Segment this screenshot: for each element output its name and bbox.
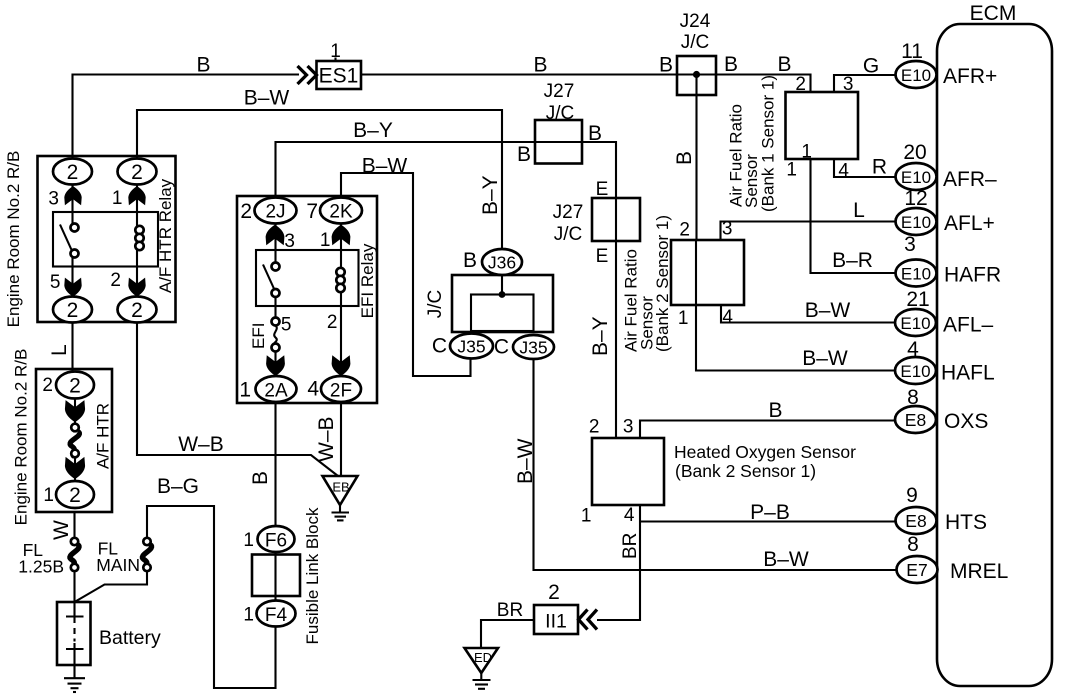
svg-text:1.25B: 1.25B [18, 557, 64, 577]
fusible link block box [252, 555, 300, 597]
svg-text:B: B [463, 249, 477, 272]
heater element [70, 399, 79, 482]
wire B-W: AFR bank2 pin1 to HAFL [695, 240, 697, 305]
svg-text:1: 1 [243, 605, 254, 626]
connector F6 pin 1 [243, 526, 294, 552]
arrow down heater bottom [65, 457, 85, 479]
svg-text:B–Y: B–Y [479, 175, 502, 215]
svg-text:(Bank 2 Sensor 1): (Bank 2 Sensor 1) [653, 215, 672, 352]
svg-text:2: 2 [131, 161, 143, 184]
svg-text:E8: E8 [905, 410, 926, 430]
arrow down pin2 [128, 278, 145, 297]
svg-text:B–W: B–W [362, 155, 408, 178]
fuse EFI [249, 318, 280, 352]
svg-text:AFR–: AFR– [943, 168, 997, 191]
svg-text:BR: BR [620, 533, 641, 559]
fuse FL 1.25B [18, 538, 79, 577]
switch contacts A/F HTR relay [60, 224, 79, 258]
svg-text:HAFL: HAFL [941, 362, 995, 385]
wire W-B: A/F HTR relay pin2 to EB ground [137, 322, 338, 476]
svg-text:B: B [533, 54, 547, 77]
svg-text:MAIN: MAIN [96, 555, 140, 575]
svg-text:R: R [872, 156, 887, 179]
wire B-W: A/F HTR relay pin1 to J36 [137, 110, 502, 250]
connector 2 top-right A/F HTR relay [118, 159, 157, 185]
svg-text:2: 2 [240, 200, 252, 223]
coil A/F HTR relay [135, 226, 143, 250]
wire battery to ground [73, 649, 75, 678]
wire B main top: A/F HTR relay pin3 to ES1 [73, 75, 300, 159]
J27 J/C upper [517, 81, 602, 166]
svg-text:4: 4 [307, 378, 319, 401]
battery [57, 602, 161, 665]
svg-text:B: B [659, 54, 673, 77]
relay A/F HTR: Engine Room No.2 R/B box [4, 151, 176, 328]
svg-text:E10: E10 [901, 213, 931, 232]
svg-text:B: B [673, 151, 696, 165]
wire pin3 internal A/F HTR relay [71, 185, 73, 225]
ground EB [323, 476, 358, 520]
node J24 junction dot [693, 71, 700, 78]
wire J36 to junction bar [501, 275, 503, 295]
svg-text:B: B [777, 53, 791, 76]
svg-text:EFI: EFI [249, 323, 268, 349]
svg-text:J24: J24 [680, 11, 711, 32]
svg-text:2J: 2J [265, 202, 285, 223]
svg-text:J35: J35 [519, 338, 547, 358]
svg-text:3: 3 [904, 233, 916, 256]
arrow down 2F [332, 355, 351, 376]
svg-text:F6: F6 [265, 531, 287, 552]
svg-text:20: 20 [903, 141, 926, 164]
svg-text:1: 1 [112, 188, 123, 209]
svg-text:B–Y: B–Y [589, 316, 612, 356]
J27 J/C lower [553, 179, 640, 267]
svg-text:2: 2 [589, 417, 600, 438]
connector 2 bottom-left A/F HTR relay [53, 297, 92, 323]
svg-text:II1: II1 [545, 611, 567, 633]
node junction dot on bar [499, 291, 506, 298]
svg-text:B–R: B–R [832, 249, 873, 272]
svg-text:Battery: Battery [99, 627, 161, 649]
connector J35 right with label C [494, 335, 554, 359]
wire B-W: AFR bank2 pin4 to AFL- [721, 305, 896, 323]
arrow up pin1 [128, 186, 145, 205]
svg-text:3: 3 [48, 189, 59, 210]
svg-text:Fusible Link Block: Fusible Link Block [303, 507, 322, 645]
svg-text:B: B [588, 122, 602, 145]
svg-text:Engine Room No.2 R/B: Engine Room No.2 R/B [12, 349, 31, 526]
wire B-W: EFI relay 2K to J35 left [341, 173, 471, 376]
A/F HTR heater component box [12, 349, 113, 526]
svg-text:2: 2 [679, 220, 690, 241]
coil EFI relay [336, 268, 344, 292]
wire B: ES1 to J24 to sensor pin 2 [361, 75, 811, 94]
ground ED [465, 648, 499, 689]
connector J35 left with label C [432, 334, 493, 359]
svg-text:1: 1 [801, 142, 812, 163]
arrow up pin3 [64, 186, 81, 205]
arrow down pin5 [64, 278, 81, 297]
arrow down 2A [266, 355, 285, 376]
svg-text:B–G: B–G [157, 475, 199, 498]
svg-text:W: W [50, 520, 73, 540]
svg-text:C: C [494, 336, 509, 359]
svg-text:2: 2 [327, 312, 338, 333]
wire B-G: FL MAIN up over and down to F4 [147, 506, 276, 688]
svg-text:B: B [724, 53, 738, 76]
svg-text:MREL: MREL [950, 560, 1008, 583]
svg-text:E10: E10 [901, 168, 931, 187]
svg-text:1: 1 [320, 230, 331, 251]
svg-text:P–B: P–B [750, 501, 790, 524]
wire pin2 internal A/F HTR relay [136, 248, 138, 297]
svg-text:4: 4 [722, 307, 733, 328]
svg-text:5: 5 [50, 272, 61, 293]
svg-text:J36: J36 [488, 253, 516, 273]
connector J36 with label B [463, 249, 522, 275]
svg-text:HAFR: HAFR [944, 264, 1001, 287]
wire B vertical J24 to AFR sensor bank2 pin 2 [695, 75, 697, 241]
svg-text:2: 2 [548, 581, 560, 604]
svg-text:2: 2 [795, 74, 806, 95]
svg-text:2: 2 [110, 270, 121, 291]
switch contacts EFI relay [263, 263, 280, 298]
svg-text:W–B: W–B [315, 416, 338, 462]
connector 2 pin 2 A/F HTR [42, 372, 94, 399]
svg-text:E: E [596, 179, 609, 200]
wire pin3 internal EFI relay [274, 224, 276, 264]
svg-text:3: 3 [843, 74, 854, 95]
connector 2 bottom-right A/F HTR relay [118, 297, 157, 323]
svg-text:3: 3 [284, 231, 295, 252]
ECM connector ovals and labels [750, 40, 1008, 583]
II1 connector [534, 581, 597, 634]
svg-text:(Bank 1 Sensor 1): (Bank 1 Sensor 1) [759, 75, 778, 212]
svg-text:B: B [196, 54, 210, 77]
svg-text:AFR+: AFR+ [943, 65, 997, 88]
connector 2 top-left A/F HTR relay [53, 159, 92, 185]
svg-text:21: 21 [906, 288, 929, 311]
svg-text:B: B [768, 399, 782, 422]
wire P-B: HO2S pin4 to HTS and down to II1 [597, 505, 640, 620]
wire pin1 internal EFI relay [340, 224, 342, 270]
AFR sensor bank1 box [727, 74, 859, 212]
heated oxygen sensor box [581, 417, 856, 527]
svg-text:2: 2 [67, 161, 79, 184]
svg-text:G: G [863, 55, 879, 78]
connector 2J pin 2 EFI relay [240, 198, 296, 224]
svg-text:5: 5 [281, 315, 292, 336]
svg-text:J/C: J/C [681, 32, 710, 53]
svg-text:8: 8 [907, 533, 919, 556]
arrow up 2J [266, 225, 285, 246]
svg-text:9: 9 [906, 484, 918, 507]
svg-text:B–W: B–W [514, 438, 537, 484]
svg-text:2K: 2K [329, 202, 353, 223]
svg-text:12: 12 [904, 187, 927, 210]
svg-text:ECM: ECM [970, 2, 1017, 25]
svg-text:B–W: B–W [802, 347, 848, 370]
wire L: A/F HTR relay pin5 down [71, 322, 73, 372]
EFI relay box [237, 196, 377, 403]
svg-text:1: 1 [243, 530, 254, 551]
svg-text:2: 2 [131, 299, 143, 322]
junction connector J/C inner bus bar [471, 295, 534, 332]
connector 2A pin 1 EFI relay [239, 376, 296, 402]
J24 J/C [677, 11, 716, 95]
svg-text:4: 4 [838, 161, 849, 182]
svg-text:1: 1 [239, 379, 251, 402]
AFR sensor bank2 box [622, 215, 745, 352]
fuse FL MAIN [96, 538, 151, 575]
svg-text:3: 3 [722, 219, 733, 240]
svg-text:J/C: J/C [554, 224, 583, 245]
svg-text:J27: J27 [553, 202, 584, 223]
wire fuse to 2A internal EFI relay [274, 351, 276, 377]
wire pin1 internal A/F HTR relay [136, 185, 138, 228]
connector 2K pin 7 EFI relay [306, 198, 362, 224]
ground battery [64, 678, 85, 692]
svg-text:(Bank 2 Sensor 1): (Bank 2 Sensor 1) [675, 461, 816, 481]
svg-text:OXS: OXS [944, 410, 988, 433]
svg-text:1: 1 [43, 485, 54, 506]
svg-text:B–Y: B–Y [353, 119, 393, 142]
svg-text:E10: E10 [900, 314, 930, 333]
ES1 connector [298, 41, 362, 89]
svg-text:J27: J27 [544, 81, 575, 102]
EFI relay inner box [256, 250, 359, 306]
wire B: HO2S pin3 to OXS [640, 421, 896, 439]
svg-text:1: 1 [330, 41, 341, 62]
svg-text:B: B [517, 143, 531, 166]
svg-text:C: C [432, 335, 447, 358]
svg-text:2: 2 [69, 484, 81, 507]
svg-text:F4: F4 [265, 605, 288, 626]
svg-text:1: 1 [786, 160, 797, 181]
wire W-B: EFI relay 2F to EB ground [340, 402, 342, 476]
wire W: A/F HTR to battery [73, 512, 75, 538]
svg-text:EFI Relay: EFI Relay [358, 243, 377, 318]
wire B: EFI relay 2A to fusible link block [274, 402, 276, 627]
svg-text:EB: EB [332, 480, 349, 495]
svg-text:B: B [249, 471, 272, 485]
svg-text:2F: 2F [330, 381, 352, 402]
svg-text:AFL–: AFL– [943, 314, 994, 337]
svg-text:HTS: HTS [945, 511, 987, 534]
svg-text:11: 11 [901, 40, 923, 63]
wire pin2 internal EFI relay [340, 291, 342, 377]
svg-text:2A: 2A [264, 381, 288, 402]
svg-text:ES1: ES1 [319, 65, 359, 88]
svg-text:AFL+: AFL+ [944, 212, 995, 235]
wire R: AFR bank1 pin4 to AFR- [811, 159, 897, 273]
svg-text:4: 4 [624, 505, 635, 526]
svg-text:E10: E10 [900, 362, 930, 381]
wire pin5 internal A/F HTR relay [71, 257, 73, 297]
ECM module outline [937, 2, 1052, 686]
svg-text:E8: E8 [905, 511, 926, 531]
connector 2F pin 4 EFI relay [307, 376, 361, 402]
svg-text:L: L [48, 344, 71, 356]
svg-text:B–W: B–W [244, 87, 290, 110]
svg-text:Heated Oxygen Sensor: Heated Oxygen Sensor [674, 442, 856, 462]
svg-text:A/F HTR: A/F HTR [94, 403, 113, 469]
svg-text:7: 7 [306, 200, 318, 223]
svg-text:J/C: J/C [425, 290, 446, 319]
svg-text:Engine Room No.2 R/B: Engine Room No.2 R/B [4, 151, 23, 328]
svg-text:3: 3 [623, 417, 634, 438]
svg-text:L: L [853, 199, 865, 222]
svg-text:2: 2 [67, 299, 79, 322]
relay inner box [53, 212, 158, 267]
svg-text:ED: ED [474, 650, 492, 665]
svg-text:1: 1 [581, 506, 592, 527]
wire BR: II1 to ED ground [481, 620, 534, 648]
wire pin5 internal EFI relay [274, 297, 276, 319]
svg-text:E: E [596, 246, 609, 267]
svg-text:2: 2 [69, 375, 81, 398]
svg-text:B–W: B–W [805, 299, 851, 322]
wire B-W: J35 right to MREL [534, 359, 898, 570]
wire AFR bank1 pin2 from B wire [834, 75, 896, 93]
svg-text:BR: BR [497, 600, 523, 621]
junction connector J/C outer box [452, 275, 553, 332]
arrow up 2K [332, 225, 351, 246]
svg-text:B–W: B–W [763, 548, 809, 571]
svg-text:J35: J35 [457, 337, 485, 357]
wire G: AFR bank1 pin3 to AFR+ [834, 159, 896, 177]
svg-text:W–B: W–B [178, 433, 224, 456]
connector 2 pin 1 A/F HTR [43, 481, 94, 508]
connector F4 pin 1 [243, 601, 295, 627]
svg-text:1: 1 [678, 308, 689, 329]
wire B-R: AFR bank1 pin1 to HAFR [721, 222, 897, 241]
arrow down heater top [65, 400, 85, 422]
svg-text:E7: E7 [906, 560, 927, 580]
svg-text:E10: E10 [901, 265, 931, 284]
wire B-Y: EFI relay 2J through J27 down to HO2S pin 2 [276, 142, 617, 438]
wire battery to FL MAIN [75, 571, 148, 602]
svg-text:E10: E10 [901, 66, 931, 85]
svg-text:2: 2 [42, 375, 53, 396]
